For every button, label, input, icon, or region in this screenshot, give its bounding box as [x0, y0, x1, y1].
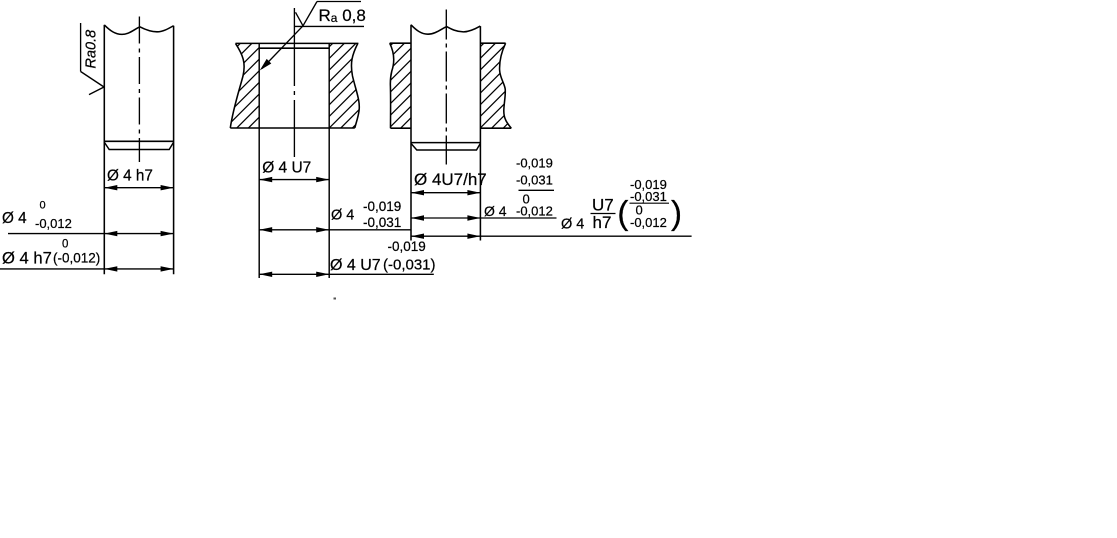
- svg-text:0: 0: [40, 200, 46, 212]
- svg-text:0: 0: [62, 238, 68, 250]
- svg-text:Ø 4 U7: Ø 4 U7: [262, 159, 311, 176]
- svg-text:Ø 4 h7: Ø 4 h7: [2, 249, 52, 268]
- hatching right wall (middle figure hole section): [248, 43, 449, 128]
- shaft end chamfer (right figure): [411, 144, 480, 150]
- svg-text:U7: U7: [592, 195, 614, 214]
- svg-text:Ø 4: Ø 4: [484, 203, 507, 219]
- centerline (left figure): [138, 17, 140, 163]
- dimension line 1 (right figure): [411, 192, 480, 194]
- dimension line 3 (middle figure): [259, 273, 434, 275]
- svg-text:-0,031: -0,031: [516, 172, 553, 187]
- svg-text:Ø 4U7/h7: Ø 4U7/h7: [414, 170, 487, 189]
- svg-text:-0,031: -0,031: [363, 215, 401, 230]
- svg-text:-0,012: -0,012: [35, 216, 72, 231]
- svg-text:Ø 4: Ø 4: [331, 208, 354, 224]
- svg-text:Ø 4 h7: Ø 4 h7: [107, 168, 153, 185]
- svg-text:-0,012: -0,012: [630, 215, 667, 230]
- stray dot: [334, 298, 337, 300]
- svg-text:-0,019: -0,019: [516, 156, 553, 171]
- dimension line 2 (left figure): [8, 233, 174, 235]
- svg-text:-0,019: -0,019: [388, 239, 426, 254]
- shaft in hole: shaft outline (right figure): [411, 25, 480, 241]
- hatching left wall (middle figure hole section): [144, 43, 357, 128]
- hole section outline (middle figure): [230, 43, 359, 128]
- shaft end chamfer (left figure): [105, 143, 174, 150]
- svg-text:Ø 4 U7: Ø 4 U7: [330, 257, 381, 274]
- centerline (right figure): [445, 10, 447, 165]
- svg-text:Ø 4: Ø 4: [2, 210, 27, 227]
- svg-text:-0,019: -0,019: [363, 199, 401, 214]
- hatching left wall (right figure assembly section): [308, 43, 498, 128]
- hole bore edges / extension lines (middle figure): [258, 43, 260, 278]
- hatching right wall (right figure assembly section): [399, 43, 600, 128]
- svg-text:h7: h7: [593, 213, 612, 232]
- dimension line 2 (right figure): [411, 217, 557, 219]
- dimension line 3 (left figure): [0, 268, 174, 270]
- dimension line 1 (left figure): [104, 187, 173, 189]
- svg-text:(-0,031): (-0,031): [383, 257, 436, 274]
- svg-text:-0,012: -0,012: [516, 204, 553, 219]
- surface finish symbol Ra0.8 (left figure): [81, 23, 104, 95]
- svg-text:Ø 4: Ø 4: [561, 217, 584, 233]
- svg-text:): ): [671, 194, 682, 231]
- dimension line 1 (middle figure): [259, 179, 329, 181]
- svg-text:Ra 0,8: Ra 0,8: [319, 6, 366, 25]
- leader arrowhead (middle figure): [260, 59, 272, 71]
- svg-text:(-0,012): (-0,012): [53, 251, 100, 266]
- svg-text:Ra0.8: Ra0.8: [84, 30, 100, 69]
- surface finish symbol Ra 0,8 (middle figure): [262, 2, 364, 69]
- shaft body outline (left figure): [104, 25, 173, 274]
- svg-text:(: (: [617, 194, 628, 231]
- hole block outline (right figure): [390, 43, 512, 128]
- dimension line 2 (middle figure): [259, 229, 410, 231]
- dimension line 3 (right figure): [411, 235, 692, 237]
- centerline (middle figure): [293, 8, 295, 157]
